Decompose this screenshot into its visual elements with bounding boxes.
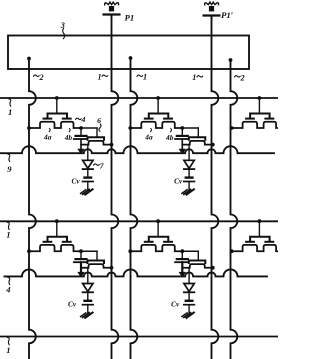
junction dot channel-to-column (cell TL) xyxy=(27,126,31,130)
gate bar of transistor T6 (cell TM) xyxy=(189,137,206,140)
label 4b (cell TM) xyxy=(165,129,174,142)
label ~2 on column C1 xyxy=(34,73,44,82)
junction dot channel-to-column (cell BRcut) xyxy=(230,249,234,253)
junction dot on word line (cell BRcut) xyxy=(258,219,262,223)
bit line column C4 (from P1') xyxy=(212,16,219,359)
gate bar of transistor T6 (cell TL) xyxy=(88,137,105,140)
gate foot of transistor 4a (cell BL) xyxy=(44,241,52,243)
diode-to-capacitor lead (cell BL) xyxy=(87,292,89,300)
svg-text:Cv: Cv xyxy=(174,176,183,185)
svg-text:4a: 4a xyxy=(144,133,153,142)
svg-text:9: 9 xyxy=(7,164,12,174)
bus rectangle 3 xyxy=(8,36,249,70)
gate bar of transistor T6 (cell BL) xyxy=(88,261,105,264)
svg-text:1: 1 xyxy=(192,73,196,82)
svg-text:1: 1 xyxy=(6,345,10,355)
label ~2 on column C5 xyxy=(235,74,245,83)
node link to T6 gate (cell BL) xyxy=(81,250,97,252)
svg-text:1: 1 xyxy=(98,73,102,82)
T6 gate stub (cell BM) xyxy=(197,251,199,260)
channel of transistor T6 (cell TL) xyxy=(81,141,112,145)
capacitor CV top plate (cell TL) xyxy=(85,176,92,178)
gate stub of cell TM xyxy=(157,98,159,114)
terminal P1' (pulse input, top of bit line C4) xyxy=(204,2,234,20)
gate bar of transistors 4a/4b (cell TRcut) xyxy=(250,114,270,119)
diode stub (cell TM) xyxy=(188,145,190,161)
junction dot on word line (cell TM) xyxy=(156,96,160,100)
label 4a (cell TL) xyxy=(43,129,52,142)
capacitor-to-ground lead (cell TM) xyxy=(188,182,190,190)
diode 7 (cell TM) xyxy=(184,160,194,169)
ground symbol (cell TM) xyxy=(182,189,194,194)
storage capacitor bottom plate (cell BL) xyxy=(74,261,86,263)
channel of transistor T6 (cell BM) xyxy=(182,264,213,268)
column C5 (tap 2 from bus) xyxy=(231,60,238,359)
svg-text:2: 2 xyxy=(240,74,245,83)
substrate arrow onto source row (cell BL) xyxy=(78,272,84,276)
junction dot T6-drain to bit line (cell TM) xyxy=(211,143,215,147)
label 6 with leader (cell TL) xyxy=(97,116,101,132)
junction dot channel-to-column (cell TM) xyxy=(128,126,132,130)
gate bar of transistors 4a/4b (cell TL) xyxy=(48,114,68,119)
node/tap dot on bus for column C1 xyxy=(27,57,31,61)
label 4a (cell TM) xyxy=(144,129,153,142)
svg-text:4b: 4b xyxy=(165,133,174,142)
label 1 on word line row 1 xyxy=(8,99,12,117)
gate foot of transistor 4a (cell BM) xyxy=(145,241,153,243)
svg-text:Cv: Cv xyxy=(68,300,77,309)
gate foot of transistor 4a (cell TL) xyxy=(44,118,52,120)
storage capacitor lead (cell BM) xyxy=(181,251,183,258)
diode stub (cell BM) xyxy=(188,268,190,284)
label ~4 gate bar (cell TL) xyxy=(76,115,86,124)
capacitor CV bottom plate (cell BL) xyxy=(83,304,94,306)
junction dot on word line (cell BL) xyxy=(55,219,59,223)
svg-text:Cv: Cv xyxy=(72,176,81,185)
channel of transistor T6 (cell BL) xyxy=(81,264,112,268)
capacitor-to-ground lead (cell TL) xyxy=(87,182,89,190)
diode-to-capacitor lead (cell TM) xyxy=(188,169,190,177)
gate foot of transistor 4a (cell BRcut) xyxy=(246,241,254,243)
terminal P1 (pulse input, top of bit line C2) xyxy=(104,2,135,22)
gate bar of transistors 4a/4b (cell TM) xyxy=(149,114,169,119)
storage capacitor lead (cell TL) xyxy=(80,128,82,135)
storage capacitor bottom plate (cell TM) xyxy=(175,138,187,140)
substrate arrow onto source row (cell BM) xyxy=(180,272,186,276)
gate foot of transistor 4b (cell TM) xyxy=(164,118,172,120)
storage capacitor lead (cell TM) xyxy=(181,128,183,135)
T6 gate stub (cell TM) xyxy=(197,128,199,137)
label 4b (cell TL) xyxy=(64,129,73,142)
gate foot of transistor 4b (cell BL) xyxy=(63,241,71,243)
label 3 with leader xyxy=(60,21,65,39)
row line 4 (source row, hops over columns and cell stubs) xyxy=(4,269,267,276)
gate bar of transistors 4a/4b (cell BL) xyxy=(48,237,68,242)
capacitor-to-ground lead (cell BL) xyxy=(87,305,89,313)
storage node dot (cell TL) xyxy=(79,126,83,130)
ground symbol (cell BL) xyxy=(81,313,93,318)
word line row 1 xyxy=(0,97,278,99)
storage capacitor top plate (cell TM) xyxy=(177,135,188,137)
gate foot of transistor 4a (cell TM) xyxy=(145,118,153,120)
capacitor-to-row lead (cell BM) xyxy=(181,262,183,273)
svg-text:4a: 4a xyxy=(43,133,52,142)
label 4 on row line 4 xyxy=(5,277,11,294)
channel of transistors 4a/4b (cell BL) xyxy=(29,245,81,251)
storage capacitor top plate (cell TL) xyxy=(76,135,87,137)
junction dot on word line (cell BM) xyxy=(156,219,160,223)
channel of transistors 4a/4b (cell BRcut) xyxy=(232,245,278,251)
storage node dot (cell BM) xyxy=(180,249,184,253)
junction dot T6-drain to bit line (cell TL) xyxy=(110,143,114,147)
junction dot channel-to-column (cell TRcut) xyxy=(230,126,234,130)
svg-text:7: 7 xyxy=(100,162,105,171)
label 1~ on column C2 xyxy=(98,73,108,82)
node link to T6 gate (cell TM) xyxy=(182,127,198,129)
column C3 (tap 1 from bus) xyxy=(131,58,138,359)
gate foot of transistor 4b (cell BRcut) xyxy=(265,241,273,243)
node/tap dot on bus for column C3 xyxy=(129,56,133,60)
diode 7 (cell TL) xyxy=(83,160,93,169)
storage capacitor bottom plate (cell BM) xyxy=(175,261,187,263)
channel of transistor T6 (cell TM) xyxy=(182,141,213,145)
gate stub of cell BL xyxy=(56,221,58,237)
channel of transistors 4a/4b (cell TM) xyxy=(130,122,182,128)
ground symbol (cell TL) xyxy=(81,189,93,194)
svg-text:4: 4 xyxy=(5,285,11,295)
diode stub (cell BL) xyxy=(87,268,89,284)
gate foot of transistor 4a (cell TRcut) xyxy=(246,118,254,120)
junction dot channel-to-column (cell BL) xyxy=(27,249,31,253)
row line 9 (source row, hops over columns and cell stubs) xyxy=(0,146,274,153)
junction dot on word line (cell TRcut) xyxy=(258,96,262,100)
label ~1 on column C3 xyxy=(137,73,147,82)
node link to T6 gate (cell TL) xyxy=(81,127,97,129)
svg-text:P1′: P1′ xyxy=(221,10,234,20)
gate foot of transistor 4b (cell TRcut) xyxy=(265,118,273,120)
word line row 5 xyxy=(0,336,278,338)
gate foot of transistor 4b (cell TL) xyxy=(63,118,71,120)
storage capacitor top plate (cell BM) xyxy=(177,258,188,260)
storage capacitor lead (cell BL) xyxy=(80,251,82,258)
substrate arrow onto source row (cell TM) xyxy=(180,149,186,153)
junction dot T6-drain to bit line (cell BM) xyxy=(211,266,215,270)
diode-to-capacitor lead (cell TL) xyxy=(87,169,89,177)
node link to T6 gate (cell BM) xyxy=(182,250,198,252)
capacitor-to-row lead (cell BL) xyxy=(80,262,82,273)
label 1 on word line row 3 xyxy=(6,222,10,239)
svg-text:Cv: Cv xyxy=(171,300,180,309)
label 9 on row line 9 xyxy=(7,154,12,174)
channel of transistors 4a/4b (cell TL) xyxy=(29,122,81,128)
ground symbol (cell BM) xyxy=(182,313,194,318)
storage capacitor bottom plate (cell TL) xyxy=(74,138,86,140)
T6 gate stub (cell TL) xyxy=(96,128,98,137)
diode 7 (cell BM) xyxy=(184,284,194,293)
svg-text:4b: 4b xyxy=(64,133,73,142)
diode stub (cell TL) xyxy=(87,145,89,161)
gate stub of cell BRcut xyxy=(258,221,260,237)
capacitor CV top plate (cell TM) xyxy=(186,176,193,178)
label ~7 diode (cell TL) xyxy=(94,162,105,171)
bit line column C2 (from P1) xyxy=(112,15,119,359)
svg-text:P1: P1 xyxy=(125,13,135,23)
T6 gate stub (cell BL) xyxy=(96,251,98,260)
storage node dot (cell BL) xyxy=(79,249,83,253)
gate bar of transistor T6 (cell BM) xyxy=(189,261,206,264)
word line row 3 xyxy=(0,220,278,222)
label 1~ on column C4 xyxy=(192,73,202,82)
capacitor-to-row lead (cell TL) xyxy=(80,139,82,150)
svg-text:1: 1 xyxy=(6,230,10,240)
storage capacitor top plate (cell BL) xyxy=(76,258,87,260)
svg-text:1: 1 xyxy=(143,73,147,82)
capacitor CV top plate (cell BM) xyxy=(186,300,193,302)
svg-text:2: 2 xyxy=(39,73,44,82)
junction dot T6-drain to bit line (cell BL) xyxy=(110,266,114,270)
node/tap dot on bus for column C5 xyxy=(229,58,233,62)
gate foot of transistor 4b (cell BM) xyxy=(164,241,172,243)
capacitor CV bottom plate (cell BM) xyxy=(184,304,195,306)
substrate arrow onto source row (cell TL) xyxy=(78,149,84,153)
capacitor CV bottom plate (cell TL) xyxy=(83,181,94,183)
channel of transistors 4a/4b (cell BM) xyxy=(130,245,182,251)
junction dot on word line (cell TL) xyxy=(55,96,59,100)
svg-text:4: 4 xyxy=(81,115,86,124)
label 1 on word line row 5 xyxy=(6,338,10,356)
gate bar of transistors 4a/4b (cell BM) xyxy=(149,237,169,242)
capacitor-to-row lead (cell TM) xyxy=(181,139,183,150)
channel of transistors 4a/4b (cell TRcut) xyxy=(232,122,278,128)
junction dot channel-to-column (cell BM) xyxy=(128,249,132,253)
diode-to-capacitor lead (cell BM) xyxy=(188,292,190,300)
gate stub of cell TL xyxy=(56,98,58,114)
capacitor CV top plate (cell BL) xyxy=(85,300,92,302)
capacitor CV bottom plate (cell TM) xyxy=(184,181,195,183)
gate stub of cell TRcut xyxy=(258,98,260,114)
column C1 (tap 2 from bus) xyxy=(29,59,36,359)
diode 7 (cell BL) xyxy=(83,284,93,293)
gate bar of transistors 4a/4b (cell BRcut) xyxy=(250,237,270,242)
capacitor-to-ground lead (cell BM) xyxy=(188,305,190,313)
storage node dot (cell TM) xyxy=(180,126,184,130)
svg-text:1: 1 xyxy=(8,107,12,117)
gate stub of cell BM xyxy=(157,221,159,237)
